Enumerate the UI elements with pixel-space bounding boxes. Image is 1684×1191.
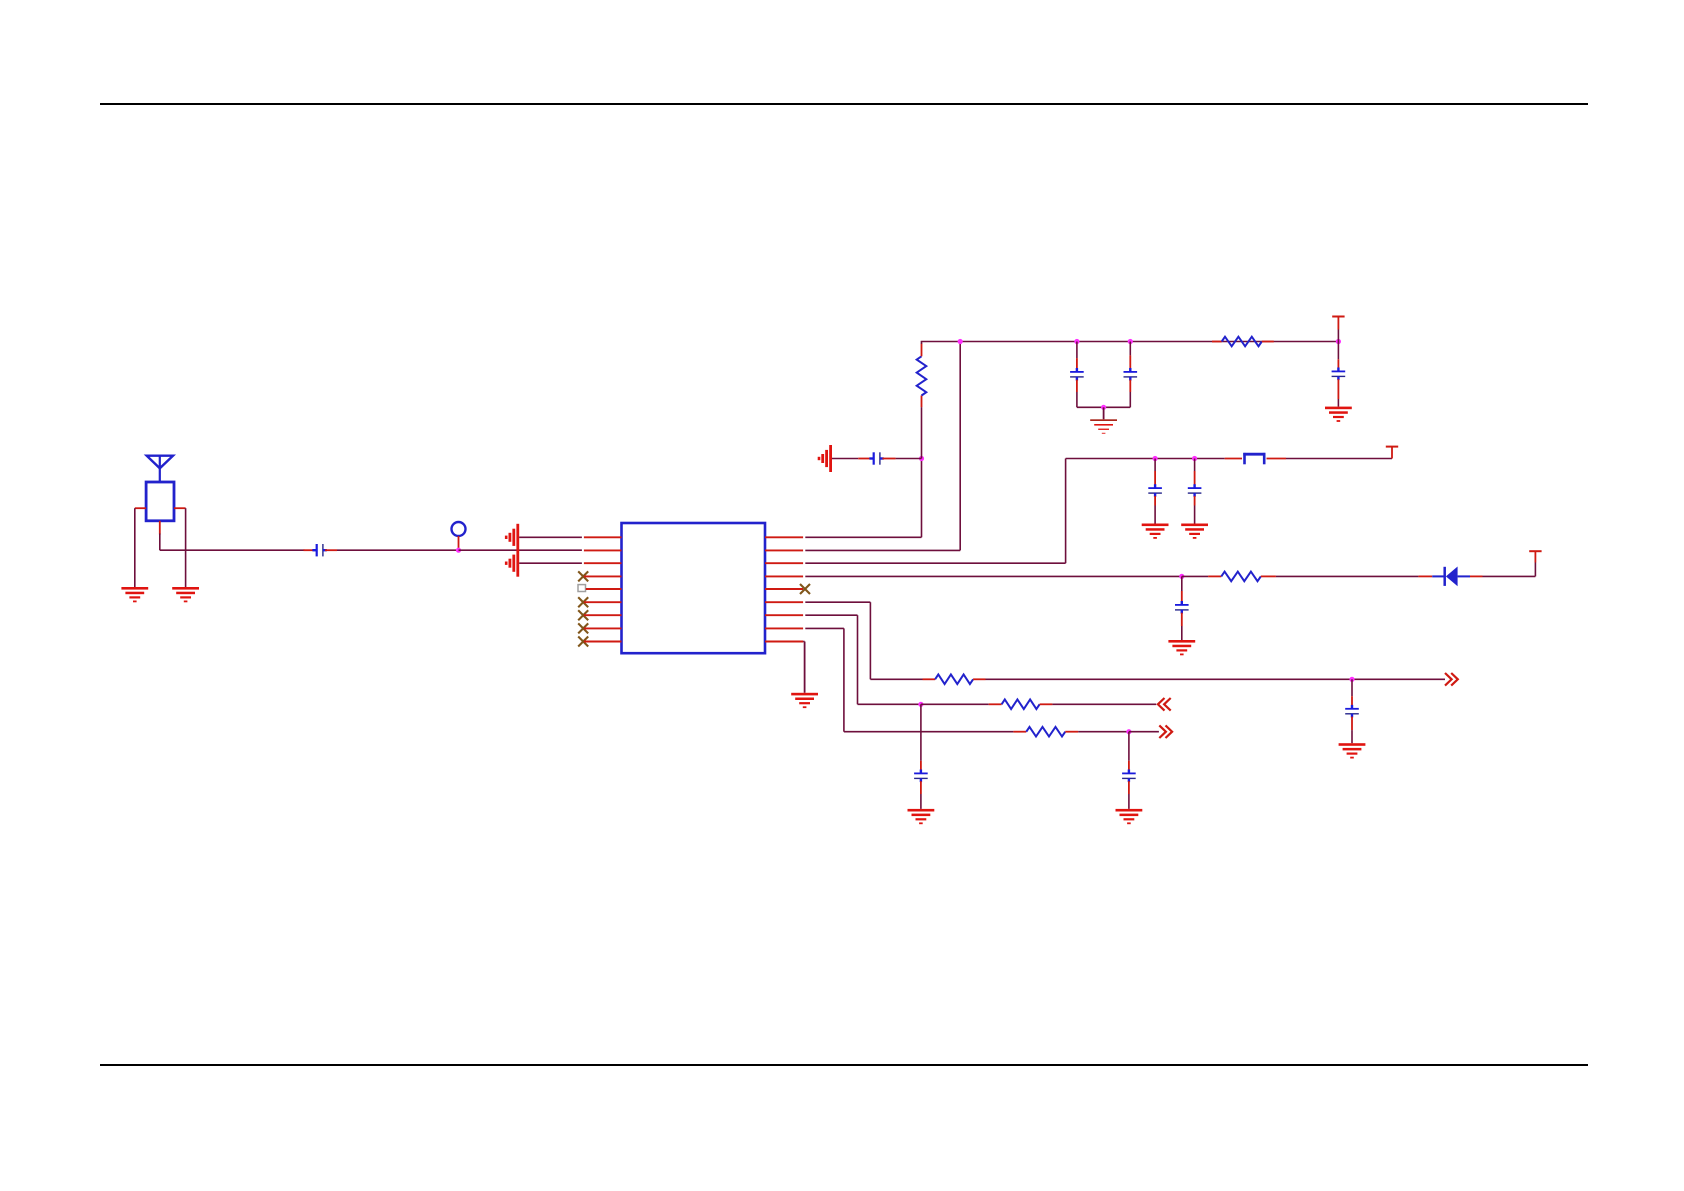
wire U1 pin11 to R6 xyxy=(805,628,1013,731)
wire node H to C7 xyxy=(1194,459,1196,472)
pin stub R4 right xyxy=(973,678,985,680)
pin stub C5 bottom xyxy=(1337,379,1339,399)
wire C7 to GND9 xyxy=(1194,506,1196,524)
ground GND6 xyxy=(1325,407,1352,422)
ground GND1 xyxy=(121,587,148,602)
wire R4 to connector xyxy=(986,678,1446,680)
junction node C xyxy=(1074,339,1079,344)
junction node J xyxy=(1349,677,1354,682)
wire U1 pin12 to node K xyxy=(805,615,921,704)
capacitor C4 xyxy=(1124,368,1138,381)
wire C1 to testpoint node xyxy=(337,549,459,551)
pin stub FB1 right xyxy=(1267,458,1287,460)
no-connect X pin7 xyxy=(578,610,588,620)
ground GND9 xyxy=(1181,524,1208,539)
pin stub R5 left xyxy=(989,703,1002,705)
pin stub R3 left xyxy=(1208,575,1221,577)
wire R5 to connector xyxy=(1052,703,1156,705)
wire F1-right to ground xyxy=(185,508,187,587)
wire F1-left to ground xyxy=(134,508,136,587)
capacitor C6 xyxy=(1148,484,1162,497)
pin stub C7 top xyxy=(1194,471,1196,487)
wire node K to C9 xyxy=(920,704,922,761)
diode D1 xyxy=(1432,567,1470,587)
wire node C to C3 xyxy=(1076,342,1078,359)
ground GND13 xyxy=(1116,809,1143,824)
pin stub C11 bottom xyxy=(1351,717,1353,731)
pin stub C2 right xyxy=(882,458,895,460)
pin stub R6 left xyxy=(1013,731,1026,733)
pin stub FB1 left xyxy=(1225,458,1242,460)
no-connect X pin6 xyxy=(578,597,588,607)
pin stub R6 right xyxy=(1065,731,1078,733)
capacitor C10 xyxy=(1122,770,1136,783)
antenna ANT1 xyxy=(147,456,173,482)
junction node H xyxy=(1192,456,1197,461)
pin stub C4 top xyxy=(1129,355,1131,371)
junction node D xyxy=(1128,339,1133,344)
wire cap gnd rail xyxy=(1077,406,1130,408)
pin stub C5 top xyxy=(1337,359,1339,370)
wire node L to connector xyxy=(1129,731,1159,733)
resistor R5 xyxy=(1002,700,1040,710)
junction node G xyxy=(1153,456,1158,461)
pin stub R1 bottom xyxy=(921,396,923,408)
ground GND14 xyxy=(791,693,818,708)
wire C4 to gnd rail xyxy=(1129,392,1131,407)
wire GND4 to pin3 xyxy=(519,562,582,564)
wire U1 pin10 to GND14 xyxy=(803,642,805,693)
wire C5 to GND6 xyxy=(1337,399,1339,407)
pin stub R2 left xyxy=(1212,341,1222,343)
pin stub F1 left xyxy=(135,507,146,509)
pin stub C8 bottom xyxy=(1181,613,1183,626)
wire U1 pin17 to top rail xyxy=(805,342,960,551)
ground GND12 xyxy=(908,809,935,824)
pin stub C1 right xyxy=(325,549,337,551)
pin stub F1 bottom xyxy=(159,521,161,535)
junction node RF xyxy=(456,548,461,553)
wire R3 to D1 xyxy=(1276,575,1419,577)
pin stub C4 bottom xyxy=(1129,380,1131,392)
power VCC1 xyxy=(1332,317,1344,342)
capacitor C5 xyxy=(1332,368,1346,381)
RF filter F1 xyxy=(146,482,174,521)
wire node G to C6 xyxy=(1154,459,1156,472)
pin stub R3 right xyxy=(1261,575,1276,577)
pin stub R1 top xyxy=(921,344,923,357)
wire R1 to top rail corner xyxy=(921,342,1339,345)
ground GND10 xyxy=(1168,640,1195,655)
wire node I to C8 xyxy=(1181,576,1183,591)
connector in1 xyxy=(1158,698,1171,711)
wire U1 pin13 to R4 xyxy=(805,602,922,679)
capacitor C8 xyxy=(1175,601,1189,614)
wire node K to R5 xyxy=(921,703,989,705)
wire C3 to gnd rail xyxy=(1076,392,1078,407)
wire C2 to node A xyxy=(896,458,922,460)
junction node F xyxy=(1336,339,1341,344)
power VCC2 xyxy=(1386,447,1398,459)
pin stub C6 bottom xyxy=(1154,496,1156,506)
pin stub C7 bottom xyxy=(1194,496,1196,506)
pin stub C11 top xyxy=(1351,696,1353,708)
capacitor C11 xyxy=(1345,705,1359,718)
wire node I to R3 xyxy=(1182,575,1208,577)
pin stub C1 left xyxy=(304,549,316,551)
pin stub C8 top xyxy=(1181,591,1183,604)
no-connect X pin8 xyxy=(578,623,588,633)
wire node D to C4 xyxy=(1129,342,1131,356)
pin stub D1 right xyxy=(1470,575,1483,577)
ground GND4 (U1 pin3) xyxy=(505,550,519,577)
pin stub C2 left xyxy=(858,458,872,460)
wire C9 to GND12 xyxy=(920,794,922,809)
resistor R1 xyxy=(917,356,927,395)
wire node L to C10 xyxy=(1128,732,1130,761)
capacitor C3 xyxy=(1070,368,1084,381)
pin stub R2 right xyxy=(1262,341,1274,343)
wire U1 pin16 to fuse rail xyxy=(805,459,1224,564)
junction node K xyxy=(918,702,923,707)
resistor R6 xyxy=(1026,727,1065,737)
ground GND5 xyxy=(1090,419,1117,433)
wire GND7 to C2 xyxy=(832,458,858,460)
testpoint TP1 xyxy=(452,522,466,536)
pin stub C3 top xyxy=(1076,358,1078,371)
connector out1 xyxy=(1445,673,1458,686)
pin stub D1 left xyxy=(1418,575,1432,577)
resistor R4 xyxy=(935,675,973,685)
pin stub C9 bottom xyxy=(920,781,922,794)
wire GND3 to pin1 xyxy=(519,536,582,538)
U1 right pins 10-18 xyxy=(765,537,803,641)
connector out2 xyxy=(1159,725,1172,738)
wire C6 to GND8 xyxy=(1154,506,1156,524)
ground GND3 (U1 pin1) xyxy=(505,524,519,551)
wire node J to C11 xyxy=(1351,679,1353,696)
no-connect X pin9 xyxy=(578,637,588,647)
wire node A up to R1 xyxy=(921,407,923,458)
no-connect X pin14 xyxy=(800,584,810,594)
pin stub C10 bottom xyxy=(1128,781,1130,794)
no-connect square pin5 xyxy=(578,585,586,592)
pin stub TP1 xyxy=(458,536,460,550)
wire F1 to C1 xyxy=(160,534,305,551)
pin stub F1 right xyxy=(174,507,186,509)
capacitor C9 xyxy=(914,770,928,783)
wire C10 to GND13 xyxy=(1128,794,1130,809)
junction node L xyxy=(1126,729,1131,734)
resistor R2 xyxy=(1222,337,1262,347)
wire C8 to GND10 xyxy=(1181,626,1183,640)
pin stub R5 right xyxy=(1040,703,1053,705)
wire RF to U1 pin2 xyxy=(459,549,582,551)
U1 left pins 1-9 xyxy=(584,537,622,641)
wire node F to C5 xyxy=(1337,342,1339,360)
fuse FB1 xyxy=(1243,453,1265,464)
junction node A xyxy=(919,456,924,461)
capacitor C1 xyxy=(312,544,326,556)
pin stub C9 top xyxy=(920,761,922,773)
IC U1 xyxy=(622,523,766,653)
ground GND2 xyxy=(172,587,199,602)
ground GND7 (C2) xyxy=(818,445,832,472)
ground GND8 xyxy=(1142,524,1169,539)
pin stub C10 top xyxy=(1128,761,1130,773)
junction node I xyxy=(1179,574,1184,579)
wire C11 to GND11 xyxy=(1351,730,1353,743)
wire U1 pin18 to R1 branch xyxy=(805,459,921,538)
wire node E to GND5 xyxy=(1103,407,1105,419)
power VCC3 xyxy=(1529,551,1541,562)
capacitor C7 xyxy=(1188,484,1202,497)
no-connect X pin4 xyxy=(578,571,588,581)
junction node E xyxy=(1101,405,1106,410)
ground GND11 xyxy=(1339,743,1366,758)
pin stub C6 top xyxy=(1154,471,1156,487)
wire D1 to VCC3 xyxy=(1483,563,1536,577)
wire FB1 to VCC2 xyxy=(1286,458,1392,460)
wire R6 to node L xyxy=(1078,731,1129,733)
pin stub R4 left xyxy=(923,678,936,680)
pin stub C3 bottom xyxy=(1076,380,1078,392)
wire U1 pin15 to diode net xyxy=(805,575,1182,577)
junction node B xyxy=(958,339,963,344)
capacitor C2 xyxy=(869,452,883,464)
resistor R3 xyxy=(1221,572,1261,582)
